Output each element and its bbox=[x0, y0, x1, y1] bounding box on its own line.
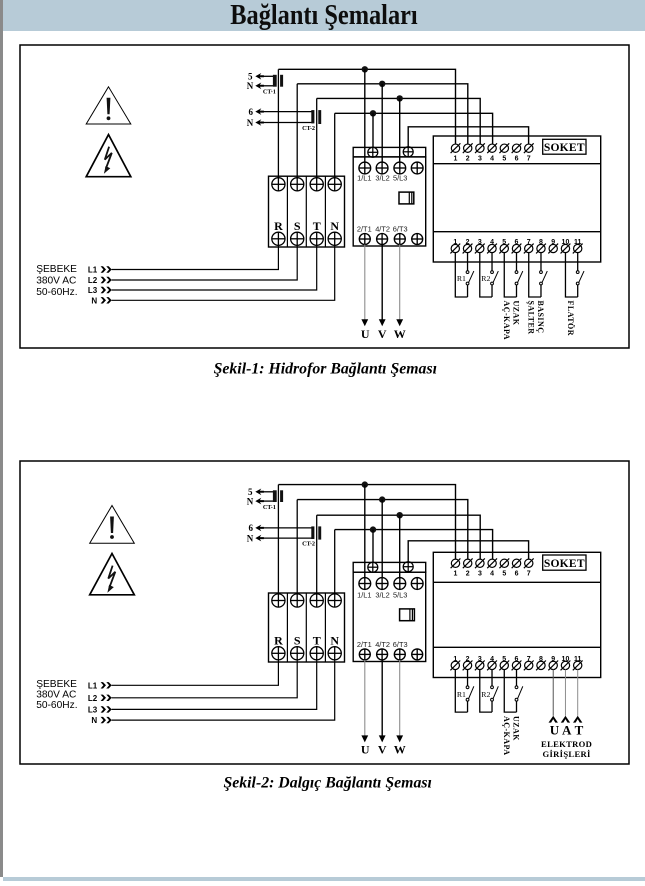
page footer bar bbox=[3, 877, 645, 881]
contactor top terminal 1 sekil-2 bbox=[359, 578, 371, 590]
wire bus S to SOKET 2 sekil-1 bbox=[297, 84, 468, 144]
arrow supply L2 sekil-2 bbox=[101, 695, 106, 701]
socket top terminal 6 sekil-2 bbox=[512, 559, 520, 567]
sekil-2 outer frame bbox=[20, 461, 629, 764]
wire phase N drop sekil-1 bbox=[334, 113, 336, 177]
wire bus T down to contactor 5/L3 sekil-2 bbox=[399, 515, 401, 577]
arrow supply L1 sekil-2 bbox=[101, 682, 106, 688]
svg-text:L2: L2 bbox=[88, 694, 98, 703]
svg-text:N: N bbox=[247, 497, 254, 507]
svg-text:50-60Hz.: 50-60Hz. bbox=[36, 700, 77, 711]
socket top terminal 3 sekil-1 bbox=[476, 144, 484, 152]
relay socket SOKET outline sekil-2 bbox=[433, 552, 600, 677]
svg-text:W: W bbox=[394, 327, 406, 341]
socket bottom terminal 7 sekil-1 bbox=[525, 244, 533, 252]
CT-2 wire N sekil-1 bbox=[263, 122, 313, 124]
terminal R top screw sekil-1 bbox=[272, 178, 285, 191]
socket top terminal 6 sekil-1 bbox=[512, 144, 520, 152]
terminal R top screw sekil-2 bbox=[272, 594, 285, 607]
socket bottom terminal 2 sekil-2 bbox=[463, 661, 471, 669]
contactor bottom terminal 3 sekil-1 bbox=[394, 234, 405, 245]
arrow motor lead U sekil-2 bbox=[361, 735, 368, 742]
warning triangle (lightning) sekil-2 bbox=[90, 554, 135, 595]
wire bus S down to contactor 3/L2 sekil-1 bbox=[381, 84, 383, 162]
socket top terminal 7 sekil-2 bbox=[525, 559, 533, 567]
wire bus N to SOKET 4 sekil-1 bbox=[335, 113, 493, 144]
svg-text:2/T1: 2/T1 bbox=[357, 640, 372, 649]
wire electrode U from socket 9 sekil-2 bbox=[552, 670, 554, 716]
wire bus S to SOKET 2 sekil-2 bbox=[297, 500, 468, 560]
svg-text:FLATÖR: FLATÖR bbox=[566, 301, 575, 336]
switch circuit R1 right wire upper sekil-2 bbox=[467, 670, 469, 686]
relay socket upper divider sekil-1 bbox=[433, 163, 600, 165]
switch circuit R2 right wire lower sekil-1 bbox=[491, 285, 493, 297]
CT-2 wire 6 sekil-1 bbox=[263, 111, 313, 113]
wire phase S drop sekil-2 bbox=[296, 500, 298, 594]
CT-1 core bar left sekil-2 bbox=[273, 490, 277, 502]
socket bottom terminal 9 sekil-2 bbox=[549, 661, 557, 669]
socket bottom terminal 4 sekil-1 bbox=[488, 244, 496, 252]
wire bus S down to contactor 3/L2 sekil-2 bbox=[381, 500, 383, 578]
contactor coil terminal A2 sekil-2 bbox=[403, 562, 413, 572]
switch circuit R2 left wire sekil-1 bbox=[480, 253, 492, 297]
socket bottom terminal 8 sekil-1 bbox=[537, 244, 545, 252]
switch circuit BASINÇ left wire sekil-1 bbox=[529, 253, 541, 297]
CT-1 arrow to N sekil-2 bbox=[255, 498, 264, 505]
terminal R bottom screw sekil-2 bbox=[272, 647, 285, 660]
svg-text:R1: R1 bbox=[457, 274, 466, 283]
svg-text:CT-1: CT-1 bbox=[263, 88, 276, 95]
switch circuit R1 right wire lower sekil-1 bbox=[467, 285, 469, 297]
CT-2 core bar left sekil-2 bbox=[311, 526, 314, 539]
svg-text:380V AC: 380V AC bbox=[36, 275, 76, 286]
socket top terminal 2 sekil-2 bbox=[464, 559, 472, 567]
socket bottom terminal 4 sekil-2 bbox=[488, 661, 496, 669]
svg-text:BASINÇ: BASINÇ bbox=[536, 301, 545, 334]
switch UZAK sekil-2 bbox=[515, 686, 518, 689]
socket top terminal 5 sekil-1 bbox=[500, 144, 508, 152]
svg-text:5/L3: 5/L3 bbox=[393, 590, 407, 599]
wire motor lead U sekil-1 bbox=[364, 245, 366, 322]
contactor bottom terminal 2 sekil-2 bbox=[377, 649, 388, 660]
terminal S top screw sekil-2 bbox=[291, 594, 304, 607]
svg-text:ELEKTROD: ELEKTROD bbox=[541, 739, 592, 749]
wire electrode T from socket 11 sekil-2 bbox=[577, 670, 579, 716]
svg-text:7: 7 bbox=[527, 571, 531, 578]
terminal block divider sekil-2 bbox=[286, 593, 288, 662]
page header bar bbox=[3, 0, 645, 31]
switch circuit R2 right wire upper sekil-1 bbox=[491, 253, 493, 271]
socket top terminal 7 sekil-1 bbox=[525, 144, 533, 152]
svg-text:6: 6 bbox=[249, 523, 254, 533]
svg-text:3/L2: 3/L2 bbox=[375, 590, 389, 599]
wire supply L3 to terminal T sekil-1 bbox=[112, 245, 317, 290]
switch circuit FLATÖR right wire upper sekil-1 bbox=[577, 253, 579, 271]
switch circuit R1 left wire sekil-2 bbox=[455, 670, 467, 713]
sekil-1 outer frame bbox=[20, 45, 629, 348]
svg-text:L1: L1 bbox=[88, 266, 98, 275]
switch R1 sekil-1 bbox=[466, 271, 469, 274]
socket bottom terminal 3 sekil-2 bbox=[476, 661, 484, 669]
arrow supply L1 sekil-1 bbox=[101, 266, 106, 272]
socket bottom terminal 8 sekil-2 bbox=[537, 661, 545, 669]
arrow motor lead V sekil-2 bbox=[379, 735, 386, 742]
socket bottom terminal 10 sekil-2 bbox=[561, 661, 569, 669]
svg-text:2: 2 bbox=[466, 571, 470, 578]
switch UZAK sekil-1 bbox=[515, 271, 518, 274]
svg-text:UZAK: UZAK bbox=[512, 301, 521, 326]
svg-text:L3: L3 bbox=[88, 286, 98, 295]
CT-2 arrow to N sekil-2 bbox=[255, 535, 264, 542]
wire supply N to terminal N sekil-1 bbox=[112, 245, 335, 300]
socket bottom terminal 11 sekil-2 bbox=[574, 661, 582, 669]
svg-text:U: U bbox=[361, 327, 370, 341]
svg-text:380V AC: 380V AC bbox=[36, 690, 76, 701]
contactor bottom terminal 1 sekil-1 bbox=[359, 234, 370, 245]
contactor top terminal 1 sekil-1 bbox=[359, 162, 371, 174]
CT-2 core bar right sekil-1 bbox=[318, 110, 321, 124]
terminal block divider sekil-1 bbox=[324, 176, 326, 247]
terminal block RSTN body sekil-1 bbox=[269, 176, 345, 247]
contactor switch indicator sekil-2 bbox=[400, 609, 415, 621]
terminal block divider sekil-2 bbox=[305, 593, 307, 662]
svg-text:4/T2: 4/T2 bbox=[375, 640, 390, 649]
socket bottom terminal 5 sekil-2 bbox=[500, 661, 508, 669]
socket bottom terminal 3 sekil-1 bbox=[476, 244, 484, 252]
svg-text:V: V bbox=[378, 742, 387, 756]
socket bottom terminal 7 sekil-2 bbox=[525, 661, 533, 669]
junction dot on bus S sekil-2 bbox=[379, 496, 385, 502]
socket bottom terminal 1 sekil-1 bbox=[451, 244, 459, 252]
socket bottom terminal 5 sekil-1 bbox=[500, 244, 508, 252]
svg-text:6/T3: 6/T3 bbox=[393, 225, 408, 234]
socket top terminal 5 sekil-2 bbox=[500, 559, 508, 567]
svg-text:N: N bbox=[247, 81, 254, 91]
svg-text:50-60Hz.: 50-60Hz. bbox=[36, 287, 77, 298]
SOKET label box sekil-1 bbox=[543, 139, 586, 154]
wire bus R to SOKET 1 sekil-1 bbox=[278, 69, 455, 144]
terminal N top screw sekil-2 bbox=[328, 594, 341, 607]
wire supply L2 to terminal S sekil-2 bbox=[112, 660, 298, 698]
terminal N bottom screw sekil-2 bbox=[328, 647, 341, 660]
contactor top terminal 2 sekil-2 bbox=[376, 578, 388, 590]
svg-text:R1: R1 bbox=[457, 690, 466, 699]
CT-1 arrow to 5 sekil-2 bbox=[255, 489, 264, 496]
wire bus R down to contactor 1/L1 sekil-1 bbox=[364, 69, 366, 162]
svg-text:SOKET: SOKET bbox=[544, 141, 585, 154]
junction dot on bus R sekil-2 bbox=[362, 481, 368, 487]
wire phase T drop sekil-1 bbox=[316, 98, 318, 177]
junction dot on bus S sekil-1 bbox=[379, 81, 385, 87]
arrow motor lead W sekil-1 bbox=[396, 319, 403, 326]
svg-text:5: 5 bbox=[248, 487, 253, 497]
wire bus R to SOKET 1 sekil-2 bbox=[278, 485, 455, 560]
svg-text:R: R bbox=[274, 634, 283, 648]
switch circuit R2 right wire upper sekil-2 bbox=[491, 670, 493, 686]
CT-1 core bar left sekil-1 bbox=[273, 75, 277, 87]
wire motor lead V sekil-1 bbox=[381, 245, 383, 322]
svg-text:N: N bbox=[247, 118, 254, 128]
terminal block divider sekil-2 bbox=[324, 593, 326, 662]
wire contactor coil A2 to SOKET 7 sekil-1 bbox=[408, 127, 528, 148]
relay socket SOKET outline sekil-1 bbox=[433, 136, 600, 262]
wire bus N down to contactor coil A1 sekil-1 bbox=[372, 113, 374, 147]
svg-text:S: S bbox=[294, 219, 301, 233]
wire bus T to SOKET 3 sekil-2 bbox=[317, 515, 481, 559]
switch circuit R2 left wire sekil-2 bbox=[480, 670, 492, 713]
svg-text:4: 4 bbox=[490, 571, 494, 578]
wire phase R drop sekil-1 bbox=[277, 69, 279, 177]
wire bus R down to contactor 1/L1 sekil-2 bbox=[364, 485, 366, 578]
wire motor lead W sekil-1 bbox=[399, 245, 401, 322]
CT-1 arrow to N sekil-1 bbox=[255, 83, 264, 90]
wire supply N to terminal N sekil-2 bbox=[112, 660, 335, 720]
svg-text:R: R bbox=[274, 219, 283, 233]
wire motor lead W sekil-2 bbox=[399, 660, 401, 738]
svg-text:5: 5 bbox=[248, 72, 253, 82]
socket bottom terminal 11 sekil-1 bbox=[574, 244, 582, 252]
contactor top terminal 4 sekil-2 bbox=[411, 578, 423, 590]
arrow motor lead U sekil-1 bbox=[361, 319, 368, 326]
CT-2 core bar left sekil-1 bbox=[311, 110, 314, 123]
contactor coil terminal A2 sekil-1 bbox=[403, 147, 413, 157]
svg-text:1/L1: 1/L1 bbox=[357, 174, 371, 183]
svg-text:1/L1: 1/L1 bbox=[357, 590, 371, 599]
contactor top terminal 3 sekil-2 bbox=[394, 578, 406, 590]
terminal T top screw sekil-2 bbox=[310, 594, 323, 607]
contactor bottom terminal 2 sekil-1 bbox=[377, 234, 388, 245]
socket bottom terminal 9 sekil-1 bbox=[549, 244, 557, 252]
contactor coil terminal A1 sekil-1 bbox=[368, 147, 378, 157]
svg-text:ŞEBEKE: ŞEBEKE bbox=[36, 679, 77, 690]
contactor switch indicator sekil-1 bbox=[399, 192, 414, 204]
CT-1 wire N sekil-1 bbox=[263, 85, 275, 87]
svg-text:6: 6 bbox=[249, 107, 254, 117]
CT-2 wire N sekil-2 bbox=[263, 537, 313, 539]
contactor K1 coil terminal strip sekil-1 bbox=[353, 147, 426, 157]
socket top terminal 2 sekil-1 bbox=[464, 144, 472, 152]
wire bus N to SOKET 4 sekil-2 bbox=[335, 530, 493, 560]
contactor coil terminal A1 sekil-2 bbox=[368, 562, 378, 572]
socket top terminal 4 sekil-2 bbox=[488, 559, 496, 567]
warning triangle (exclamation) sekil-2 bbox=[90, 506, 135, 544]
SOKET label box sekil-2 bbox=[543, 555, 586, 570]
switch circuit FLATÖR left wire sekil-1 bbox=[565, 253, 577, 297]
wire contactor coil A2 to SOKET 7 sekil-2 bbox=[408, 541, 528, 562]
contactor bottom terminal 4 sekil-2 bbox=[412, 649, 423, 660]
arrow supply L2 sekil-1 bbox=[101, 277, 106, 283]
svg-text:5: 5 bbox=[502, 571, 506, 578]
svg-text:T: T bbox=[313, 634, 321, 648]
contactor top terminal 4 sekil-1 bbox=[411, 162, 423, 174]
svg-text:R2: R2 bbox=[481, 274, 490, 283]
arrow electrode A sekil-2 bbox=[561, 716, 570, 723]
svg-text:4/T2: 4/T2 bbox=[375, 225, 390, 234]
switch R2 sekil-2 bbox=[491, 686, 494, 689]
svg-text:S: S bbox=[294, 634, 301, 648]
CT-1 wire N sekil-2 bbox=[263, 500, 275, 502]
terminal S bottom screw sekil-1 bbox=[291, 232, 304, 245]
svg-text:L1: L1 bbox=[88, 681, 98, 690]
CT-1 core bar right sekil-1 bbox=[280, 75, 283, 87]
junction dot on bus T sekil-1 bbox=[397, 95, 403, 101]
terminal T bottom screw sekil-2 bbox=[310, 647, 323, 660]
contactor bottom terminal 3 sekil-2 bbox=[394, 649, 405, 660]
CT-1 wire 5 sekil-1 bbox=[263, 75, 275, 77]
terminal block divider sekil-1 bbox=[286, 176, 288, 247]
switch circuit UZAK right wire upper sekil-2 bbox=[516, 670, 518, 686]
CT-2 core bar right sekil-2 bbox=[318, 526, 321, 539]
arrow supply L3 sekil-1 bbox=[101, 287, 106, 293]
CT-2 arrow to N sekil-1 bbox=[255, 119, 264, 126]
svg-text:N: N bbox=[330, 219, 339, 233]
arrow supply N sekil-2 bbox=[101, 717, 106, 723]
wire bus T to SOKET 3 sekil-1 bbox=[317, 98, 481, 144]
svg-text:L2: L2 bbox=[88, 276, 98, 285]
svg-text:Şekil-1: Hidrofor Bağlantı Şem: Şekil-1: Hidrofor Bağlantı Şeması bbox=[214, 360, 437, 377]
terminal block divider sekil-1 bbox=[305, 176, 307, 247]
switch circuit BASINÇ right wire upper sekil-1 bbox=[540, 253, 542, 271]
switch circuit BASINÇ right wire lower sekil-1 bbox=[540, 285, 542, 297]
svg-text:Şekil-2: Dalgıç Bağlantı Şemas: Şekil-2: Dalgıç Bağlantı Şeması bbox=[223, 774, 431, 791]
socket bottom terminal 6 sekil-1 bbox=[512, 244, 520, 252]
contactor bottom terminal 1 sekil-2 bbox=[359, 649, 370, 660]
switch circuit UZAK right wire lower sekil-2 bbox=[516, 701, 518, 712]
svg-text:6/T3: 6/T3 bbox=[393, 640, 408, 649]
wire motor lead V sekil-2 bbox=[381, 660, 383, 738]
svg-text:GİRİŞLERİ: GİRİŞLERİ bbox=[543, 749, 591, 759]
arrow motor lead W sekil-2 bbox=[396, 735, 403, 742]
svg-text:5/L3: 5/L3 bbox=[393, 174, 407, 183]
terminal T top screw sekil-1 bbox=[310, 178, 323, 191]
terminal R bottom screw sekil-1 bbox=[272, 232, 285, 245]
contactor top terminal 3 sekil-1 bbox=[394, 162, 406, 174]
svg-text:T: T bbox=[313, 219, 321, 233]
switch R1 sekil-2 bbox=[466, 686, 469, 689]
switch circuit UZAK left wire sekil-2 bbox=[504, 670, 516, 713]
wire supply L2 to terminal S sekil-1 bbox=[112, 245, 298, 280]
junction dot on bus T sekil-2 bbox=[397, 512, 403, 518]
CT-2 wire 6 sekil-2 bbox=[263, 527, 313, 529]
svg-text:SOKET: SOKET bbox=[544, 557, 585, 570]
svg-text:U: U bbox=[361, 742, 370, 756]
svg-text:T: T bbox=[575, 723, 584, 738]
switch FLATÖR sekil-1 bbox=[576, 271, 579, 274]
socket bottom terminal 6 sekil-2 bbox=[512, 661, 520, 669]
svg-text:CT-1: CT-1 bbox=[263, 504, 276, 511]
switch BASINÇ sekil-1 bbox=[540, 271, 543, 274]
terminal S bottom screw sekil-2 bbox=[291, 647, 304, 660]
CT-2 arrow to 6 sekil-2 bbox=[255, 525, 264, 532]
svg-text:6: 6 bbox=[515, 571, 519, 578]
CT-1 wire 5 sekil-2 bbox=[263, 491, 275, 493]
left page edge strip bbox=[0, 0, 3, 877]
switch circuit R1 right wire upper sekil-1 bbox=[467, 253, 469, 271]
switch circuit R2 right wire lower sekil-2 bbox=[491, 701, 493, 712]
arrow electrode T sekil-2 bbox=[573, 716, 582, 723]
svg-text:1: 1 bbox=[454, 156, 458, 163]
svg-text:N: N bbox=[247, 534, 254, 544]
wire phase T drop sekil-2 bbox=[316, 515, 318, 594]
wire supply L3 to terminal T sekil-2 bbox=[112, 660, 317, 710]
junction dot on bus R sekil-1 bbox=[362, 66, 368, 72]
contactor K1 body sekil-2 bbox=[353, 572, 426, 661]
wire bus N down to contactor coil A1 sekil-2 bbox=[372, 530, 374, 563]
arrow motor lead V sekil-1 bbox=[379, 319, 386, 326]
contactor top terminal 2 sekil-1 bbox=[376, 162, 388, 174]
wire supply L1 to terminal R sekil-2 bbox=[112, 660, 279, 685]
svg-text:4: 4 bbox=[490, 156, 494, 163]
CT-1 arrow to 5 sekil-1 bbox=[255, 73, 264, 80]
svg-text:UZAK: UZAK bbox=[512, 716, 521, 741]
svg-text:6: 6 bbox=[515, 156, 519, 163]
terminal N bottom screw sekil-1 bbox=[328, 232, 341, 245]
svg-text:L3: L3 bbox=[88, 705, 98, 714]
svg-text:A: A bbox=[562, 723, 572, 738]
svg-text:N: N bbox=[91, 296, 97, 305]
contactor K1 coil terminal strip sekil-2 bbox=[353, 562, 426, 572]
socket bottom terminal 10 sekil-1 bbox=[561, 244, 569, 252]
socket bottom terminal 2 sekil-1 bbox=[463, 244, 471, 252]
arrow supply N sekil-1 bbox=[101, 297, 106, 303]
wire phase S drop sekil-1 bbox=[296, 84, 298, 178]
svg-text:ŞEBEKE: ŞEBEKE bbox=[36, 264, 77, 275]
terminal S top screw sekil-1 bbox=[291, 178, 304, 191]
switch circuit R1 right wire lower sekil-2 bbox=[467, 701, 469, 712]
socket top terminal 4 sekil-1 bbox=[488, 144, 496, 152]
svg-text:7: 7 bbox=[527, 156, 531, 163]
svg-text:2/T1: 2/T1 bbox=[357, 225, 372, 234]
svg-text:3/L2: 3/L2 bbox=[375, 174, 389, 183]
svg-text:ŞALTER: ŞALTER bbox=[526, 301, 535, 335]
svg-text:1: 1 bbox=[454, 571, 458, 578]
wire phase N drop sekil-2 bbox=[334, 530, 336, 594]
socket top terminal 1 sekil-2 bbox=[451, 559, 459, 567]
svg-text:AÇ-KAPA: AÇ-KAPA bbox=[502, 301, 511, 340]
switch circuit UZAK left wire sekil-1 bbox=[504, 253, 516, 297]
svg-text:N: N bbox=[91, 716, 97, 725]
CT-1 core bar right sekil-2 bbox=[280, 490, 283, 502]
contactor bottom terminal 4 sekil-1 bbox=[412, 234, 423, 245]
svg-text:2: 2 bbox=[466, 156, 470, 163]
terminal T bottom screw sekil-1 bbox=[310, 232, 323, 245]
junction dot on bus N sekil-2 bbox=[370, 526, 376, 532]
warning triangle (lightning) sekil-1 bbox=[86, 135, 131, 177]
wire bus T down to contactor 5/L3 sekil-1 bbox=[399, 98, 401, 162]
svg-text:5: 5 bbox=[502, 156, 506, 163]
warning triangle (exclamation) sekil-1 bbox=[86, 87, 131, 124]
wire phase R drop sekil-2 bbox=[277, 485, 279, 594]
switch circuit UZAK right wire lower sekil-1 bbox=[516, 285, 518, 297]
svg-text:V: V bbox=[378, 327, 387, 341]
socket bottom terminal 1 sekil-2 bbox=[451, 661, 459, 669]
relay socket lower divider sekil-2 bbox=[433, 646, 600, 648]
wire motor lead U sekil-2 bbox=[364, 660, 366, 738]
arrow electrode U sekil-2 bbox=[549, 716, 558, 723]
socket top terminal 3 sekil-2 bbox=[476, 559, 484, 567]
wire supply L1 to terminal R sekil-1 bbox=[112, 245, 279, 269]
svg-text:CT-2: CT-2 bbox=[302, 125, 315, 132]
relay socket upper divider sekil-2 bbox=[433, 581, 600, 583]
arrow supply L3 sekil-2 bbox=[101, 706, 106, 712]
wire electrode A from socket 10 sekil-2 bbox=[564, 670, 566, 716]
switch circuit FLATÖR right wire lower sekil-1 bbox=[577, 285, 579, 297]
CT-2 arrow to 6 sekil-1 bbox=[255, 108, 264, 115]
junction dot on bus N sekil-1 bbox=[370, 110, 376, 116]
switch circuit UZAK right wire upper sekil-1 bbox=[516, 253, 518, 271]
terminal N top screw sekil-1 bbox=[328, 178, 341, 191]
svg-text:N: N bbox=[330, 634, 339, 648]
